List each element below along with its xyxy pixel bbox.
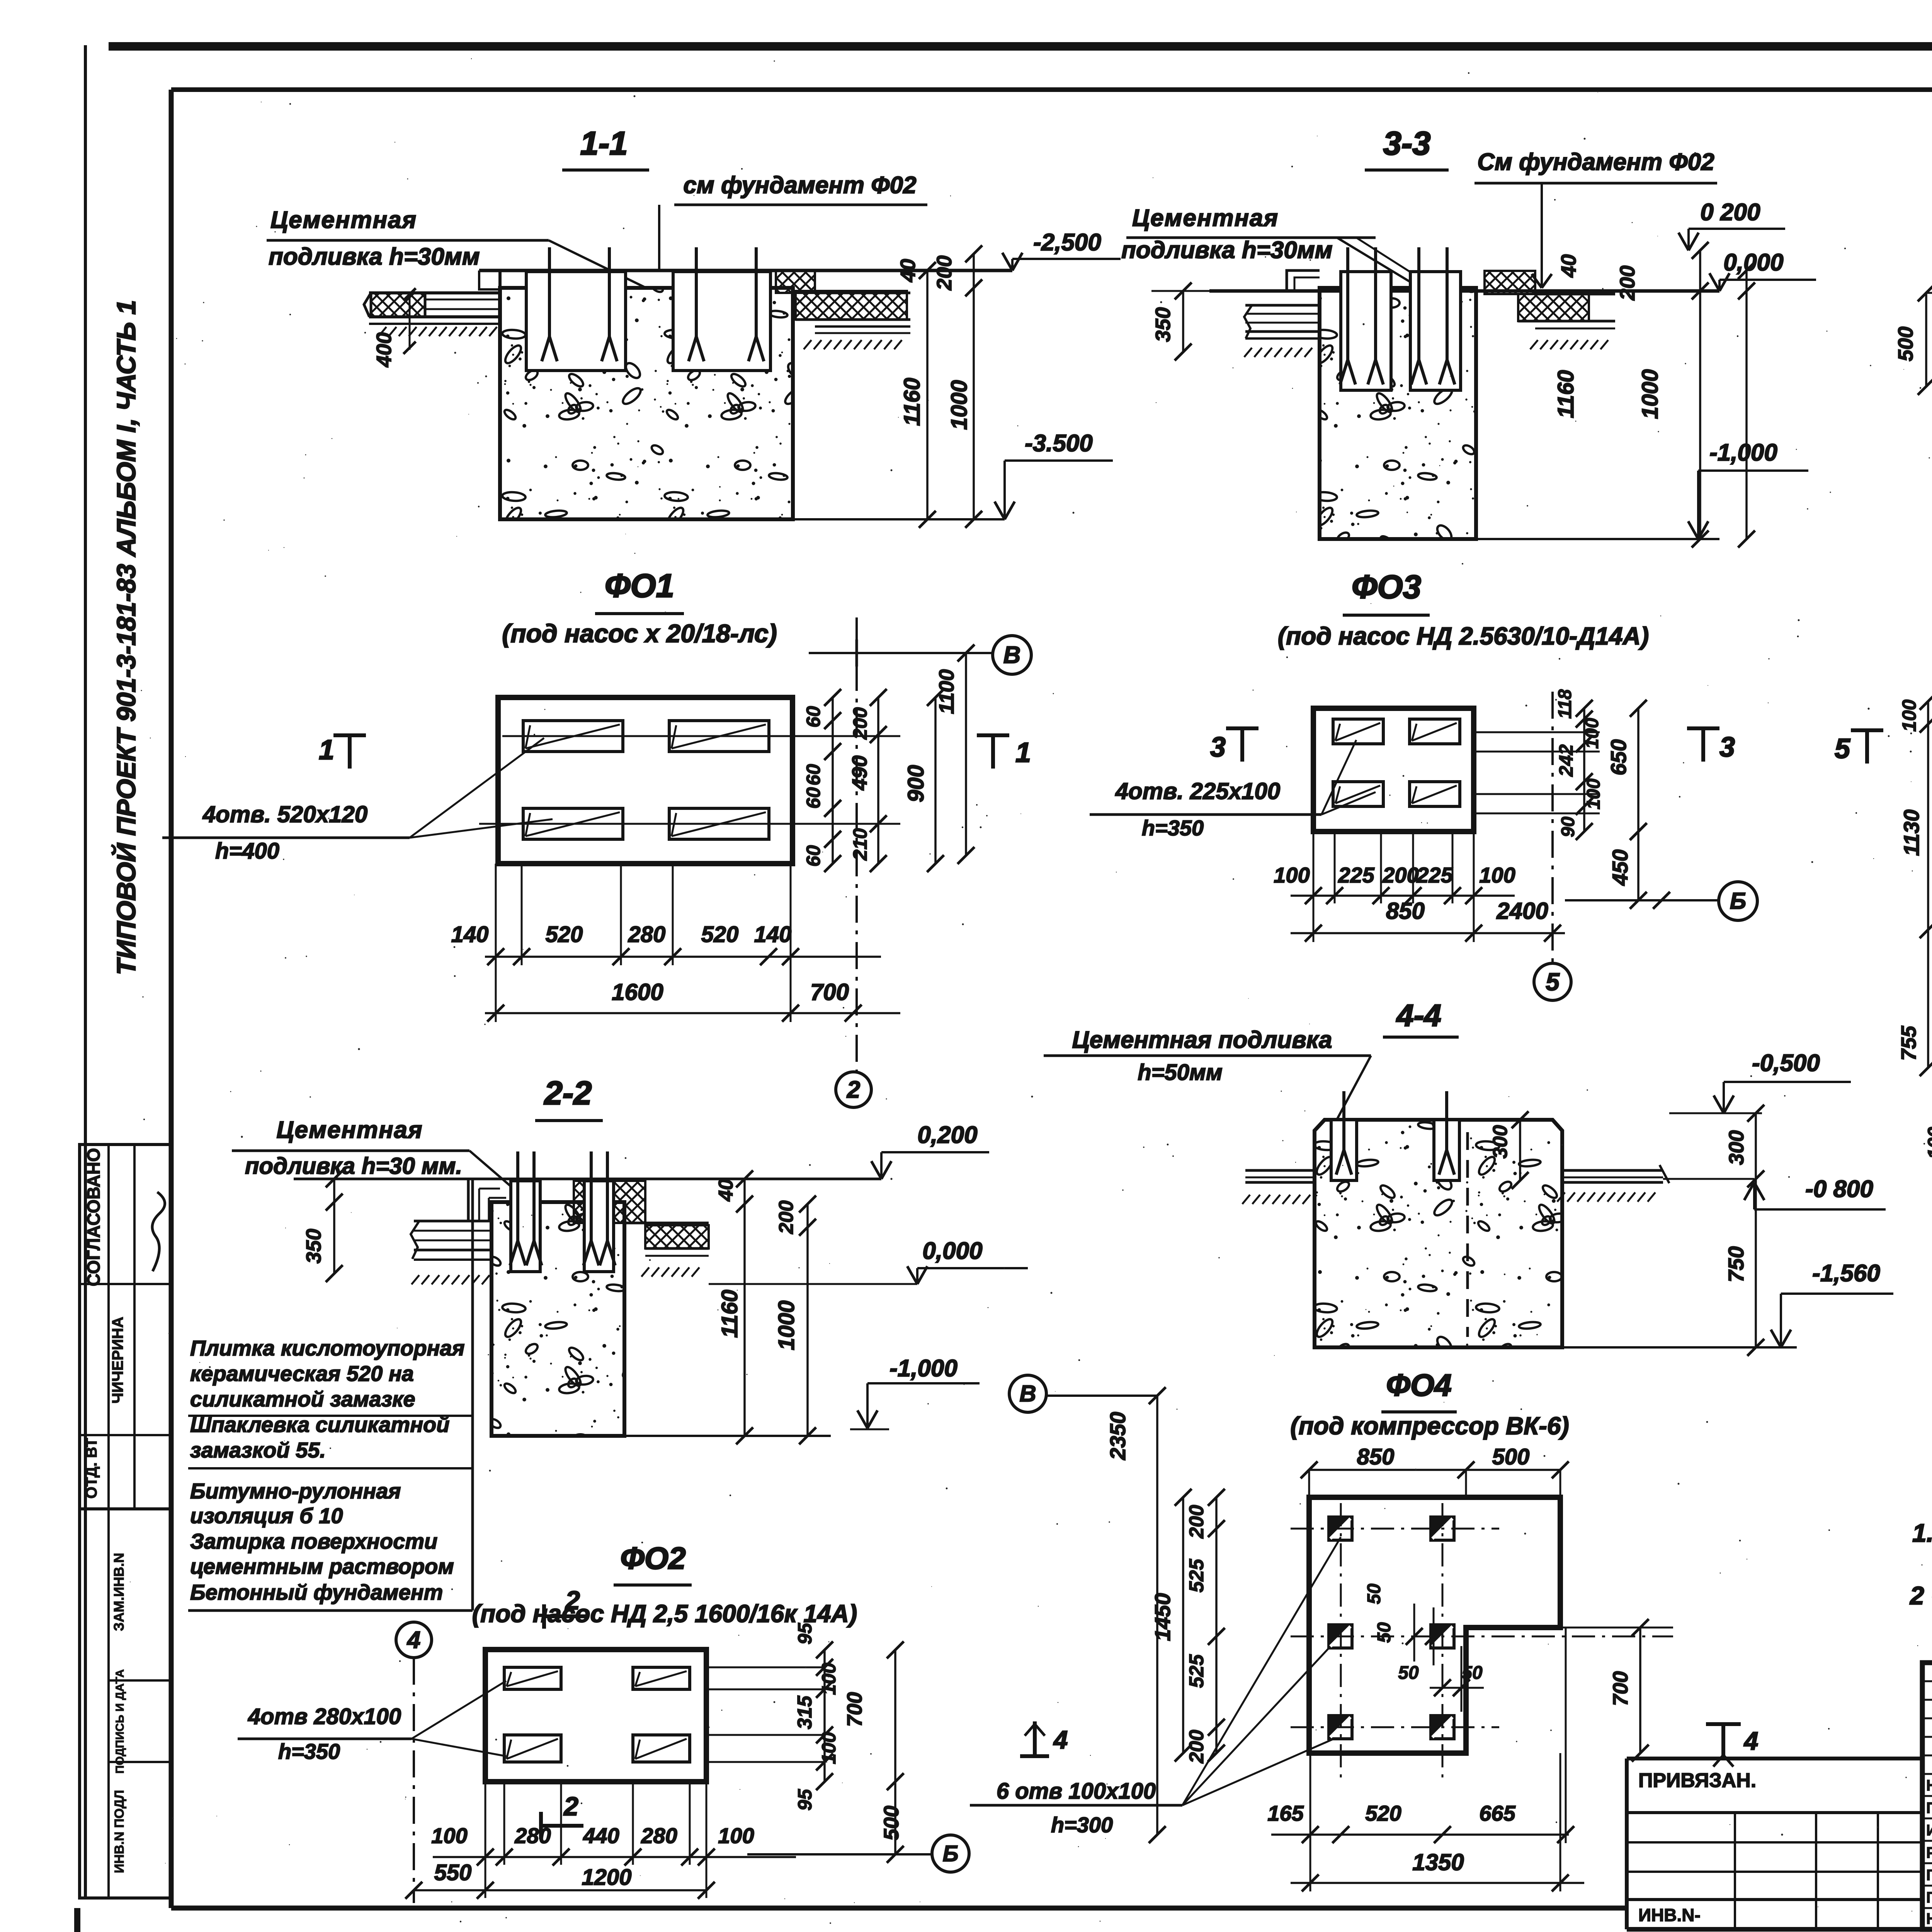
svg-text:490: 490 <box>848 755 871 791</box>
svg-text:118: 118 <box>1555 689 1575 719</box>
svg-text:ФО1: ФО1 <box>605 568 674 604</box>
svg-text:1450: 1450 <box>1150 1593 1175 1641</box>
svg-text:5: 5 <box>1546 968 1560 996</box>
svg-text:520: 520 <box>701 922 739 947</box>
svg-text:50: 50 <box>1398 1663 1419 1683</box>
svg-text:700: 700 <box>1609 1671 1632 1706</box>
svg-text:ФО4: ФО4 <box>1386 1368 1451 1402</box>
svg-text:525: 525 <box>1185 1654 1208 1688</box>
svg-text:850: 850 <box>1386 898 1425 924</box>
svg-text:200: 200 <box>1616 265 1639 301</box>
svg-text:-0 800: -0 800 <box>1805 1176 1873 1202</box>
svg-text:40: 40 <box>1557 254 1580 278</box>
svg-text:Б: Б <box>942 1841 958 1866</box>
svg-text:1200: 1200 <box>582 1865 631 1890</box>
svg-text:50: 50 <box>1364 1583 1384 1604</box>
svg-text:100: 100 <box>718 1823 754 1848</box>
svg-text:h=400: h=400 <box>215 838 279 864</box>
svg-text:200: 200 <box>1382 863 1418 887</box>
svg-text:100: 100 <box>1479 863 1515 887</box>
svg-text:-1,000: -1,000 <box>1709 439 1777 466</box>
svg-text:280: 280 <box>641 1823 677 1848</box>
svg-text:100: 100 <box>1898 699 1920 732</box>
svg-text:Н КОНТР: Н КОНТР <box>1926 1777 1932 1794</box>
svg-text:ИНВ.N ПОДЛ: ИНВ.N ПОДЛ <box>112 1790 127 1873</box>
svg-text:ТИПОВОЙ ПРОЕКТ 901-3-181-83: ТИПОВОЙ ПРОЕКТ 901-3-181-83 АЛЬБОМ I, ЧА… <box>111 300 141 975</box>
svg-text:4отв. 225х100: 4отв. 225х100 <box>1115 778 1281 804</box>
svg-text:200: 200 <box>1185 1730 1208 1764</box>
svg-text:40: 40 <box>896 259 920 282</box>
svg-text:Цементная: Цементная <box>276 1117 423 1143</box>
svg-text:см фундамент Ф02: см фундамент Ф02 <box>683 172 916 199</box>
svg-text:500: 500 <box>880 1806 903 1840</box>
svg-text:225: 225 <box>1338 863 1374 887</box>
svg-text:h=50мм: h=50мм <box>1138 1060 1223 1085</box>
svg-text:520: 520 <box>1365 1801 1401 1825</box>
svg-text:замазкой 55.: замазкой 55. <box>190 1438 326 1462</box>
svg-text:4отв. 520х120: 4отв. 520х120 <box>202 801 368 827</box>
svg-text:140: 140 <box>754 922 792 947</box>
svg-text:90: 90 <box>1558 816 1578 837</box>
svg-text:650: 650 <box>1606 739 1631 775</box>
svg-text:ФО2: ФО2 <box>620 1541 685 1575</box>
svg-text:350: 350 <box>302 1229 325 1264</box>
svg-text:4-4: 4-4 <box>1396 998 1441 1032</box>
svg-text:1350: 1350 <box>1412 1849 1464 1875</box>
svg-text:1000: 1000 <box>1638 369 1663 419</box>
svg-text:изоляция б 10: изоляция б 10 <box>190 1503 343 1528</box>
svg-text:В: В <box>1019 1381 1036 1406</box>
svg-text:0,000: 0,000 <box>1723 249 1783 276</box>
svg-text:подливка h=30 мм.: подливка h=30 мм. <box>245 1153 462 1179</box>
svg-text:ИНВ.N-: ИНВ.N- <box>1638 1905 1701 1925</box>
svg-text:100: 100 <box>431 1823 467 1848</box>
svg-text:2 Отверстия в фундаментах вы: 2 Отверстия в фундаментах выверить после… <box>1909 1581 1932 1610</box>
svg-text:1000: 1000 <box>774 1300 799 1350</box>
svg-text:100: 100 <box>818 1663 840 1695</box>
svg-text:ИНЖЕН.: ИНЖЕН. <box>1926 1822 1932 1839</box>
svg-text:4: 4 <box>406 1627 420 1653</box>
svg-text:6 отв 100х100: 6 отв 100х100 <box>997 1779 1156 1804</box>
svg-text:140: 140 <box>451 922 489 947</box>
svg-text:-3.500: -3.500 <box>1025 430 1093 457</box>
svg-text:подливка h=30мм: подливка h=30мм <box>1121 237 1333 264</box>
svg-text:В: В <box>1003 642 1021 668</box>
svg-text:400: 400 <box>372 332 396 367</box>
svg-text:750: 750 <box>1724 1246 1748 1282</box>
svg-text:40: 40 <box>715 1179 737 1202</box>
svg-text:ЧИЧЕРИНА: ЧИЧЕРИНА <box>109 1317 126 1404</box>
svg-text:280: 280 <box>628 922 666 947</box>
svg-text:1000: 1000 <box>947 380 972 430</box>
svg-text:ПРОВЕР: ПРОВЕР <box>1926 1799 1932 1816</box>
svg-text:h=350: h=350 <box>278 1739 340 1764</box>
svg-text:2-2: 2-2 <box>544 1075 592 1112</box>
svg-text:ФО3: ФО3 <box>1352 569 1421 605</box>
svg-text:95: 95 <box>794 1622 816 1645</box>
svg-text:1160: 1160 <box>1553 370 1578 418</box>
svg-text:цементным раствором: цементным раствором <box>190 1554 454 1578</box>
svg-text:ГЛ.КОНСТ: ГЛ.КОНСТ <box>1926 1889 1932 1906</box>
svg-text:1: 1 <box>1015 737 1031 768</box>
svg-text:210: 210 <box>849 828 871 861</box>
svg-text:100: 100 <box>1582 718 1602 749</box>
svg-text:Б: Б <box>1730 888 1746 914</box>
svg-text:4: 4 <box>1053 1725 1068 1754</box>
svg-text:165: 165 <box>1267 1801 1304 1825</box>
svg-text:Бетонный фундамент: Бетонный фундамент <box>190 1580 443 1604</box>
svg-text:3-3: 3-3 <box>1383 125 1431 162</box>
svg-text:4отв 280х100: 4отв 280х100 <box>248 1704 401 1729</box>
svg-text:100: 100 <box>818 1732 840 1764</box>
svg-text:1600: 1600 <box>612 979 663 1005</box>
svg-text:225: 225 <box>1416 863 1453 887</box>
svg-text:315: 315 <box>794 1696 816 1730</box>
svg-text:2350: 2350 <box>1105 1412 1130 1461</box>
svg-text:300: 300 <box>1489 1125 1512 1159</box>
svg-text:60: 60 <box>803 764 824 786</box>
svg-text:100: 100 <box>1274 863 1310 887</box>
svg-text:700: 700 <box>843 1692 866 1727</box>
svg-text:50: 50 <box>1374 1622 1395 1643</box>
svg-text:4: 4 <box>1743 1726 1759 1755</box>
svg-text:300: 300 <box>1725 1130 1748 1165</box>
svg-text:-0,500: -0,500 <box>1752 1050 1820 1077</box>
svg-text:(под насос х 20/18-лс): (под насос х 20/18-лс) <box>502 619 777 648</box>
svg-text:НАЧ ОТД: НАЧ ОТД <box>1926 1910 1932 1927</box>
svg-text:95: 95 <box>794 1789 816 1811</box>
svg-text:3: 3 <box>1719 732 1735 763</box>
svg-text:2: 2 <box>563 1792 578 1821</box>
svg-text:100: 100 <box>1924 1127 1932 1159</box>
svg-text:подливка h=30мм: подливка h=30мм <box>269 243 480 270</box>
svg-text:Плитка кислотоупорная: Плитка кислотоупорная <box>190 1336 465 1360</box>
svg-text:2: 2 <box>847 1077 860 1103</box>
svg-text:755: 755 <box>1897 1026 1920 1061</box>
svg-text:ГИП: ГИП <box>1926 1867 1932 1884</box>
svg-text:1160: 1160 <box>717 1290 742 1338</box>
svg-text:См фундамент Ф02: См фундамент Ф02 <box>1477 149 1714 175</box>
svg-text:50: 50 <box>1462 1663 1483 1683</box>
svg-text:200: 200 <box>933 255 956 291</box>
svg-text:500: 500 <box>1492 1444 1530 1469</box>
svg-text:1-1: 1-1 <box>580 125 628 162</box>
svg-text:СОГЛАСОВАНО: СОГЛАСОВАНО <box>83 1148 104 1286</box>
svg-text:-1,000: -1,000 <box>889 1355 957 1382</box>
svg-text:60: 60 <box>803 845 824 867</box>
svg-text:h=300: h=300 <box>1051 1813 1113 1837</box>
svg-text:0,200: 0,200 <box>917 1122 977 1148</box>
svg-text:550: 550 <box>434 1860 472 1885</box>
svg-text:242: 242 <box>1555 744 1577 777</box>
svg-text:700: 700 <box>810 979 849 1005</box>
svg-text:1130: 1130 <box>1899 810 1923 856</box>
svg-text:60: 60 <box>803 787 824 809</box>
svg-text:1100: 1100 <box>935 669 958 714</box>
svg-text:(под компрессор ВК-6): (под компрессор ВК-6) <box>1290 1412 1569 1440</box>
svg-text:5: 5 <box>1835 733 1850 764</box>
svg-text:1. Фундаменты показаны в раб: 1. Фундаменты показаны в рабочем положен… <box>1912 1519 1932 1547</box>
svg-text:ПОДПИСЬ И ДАТА: ПОДПИСЬ И ДАТА <box>114 1669 126 1774</box>
svg-text:Цементная: Цементная <box>270 207 417 233</box>
svg-text:500: 500 <box>1894 327 1917 361</box>
svg-text:керамическая 520 на: керамическая 520 на <box>190 1361 414 1386</box>
svg-text:3: 3 <box>1210 732 1226 763</box>
svg-text:силикатной замазке: силикатной замазке <box>190 1387 415 1411</box>
svg-text:Цементная подливка: Цементная подливка <box>1072 1027 1332 1053</box>
svg-text:РУК ГР: РУК ГР <box>1926 1844 1932 1861</box>
svg-text:900: 900 <box>903 765 929 803</box>
svg-text:Битумно-рулонная: Битумно-рулонная <box>190 1479 401 1503</box>
svg-text:ПРИВЯЗАН.: ПРИВЯЗАН. <box>1638 1769 1756 1792</box>
svg-text:-2,500: -2,500 <box>1033 229 1101 256</box>
svg-text:1160: 1160 <box>900 378 925 426</box>
svg-text:350: 350 <box>1151 307 1175 342</box>
svg-text:0 200: 0 200 <box>1700 199 1760 226</box>
svg-text:(под насос НД 2.5630/10-Д14А): (под насос НД 2.5630/10-Д14А) <box>1278 622 1649 650</box>
svg-text:200: 200 <box>775 1201 798 1235</box>
svg-text:100: 100 <box>1583 779 1604 810</box>
svg-text:200: 200 <box>849 707 871 740</box>
svg-text:200: 200 <box>1185 1505 1208 1539</box>
svg-text:ОТД. ВТ: ОТД. ВТ <box>83 1438 100 1498</box>
svg-text:450: 450 <box>1608 849 1632 886</box>
svg-text:0,000: 0,000 <box>922 1238 982 1264</box>
svg-text:520: 520 <box>546 922 583 947</box>
svg-text:1: 1 <box>319 735 334 765</box>
svg-text:Цементная: Цементная <box>1132 205 1279 231</box>
svg-text:-1,560: -1,560 <box>1812 1260 1880 1287</box>
svg-text:Затирка поверхности: Затирка поверхности <box>190 1529 437 1553</box>
svg-text:525: 525 <box>1185 1559 1208 1593</box>
svg-text:440: 440 <box>583 1823 619 1848</box>
svg-text:665: 665 <box>1479 1801 1515 1825</box>
svg-text:850: 850 <box>1357 1444 1395 1469</box>
svg-text:h=350: h=350 <box>1142 816 1204 840</box>
svg-text:60: 60 <box>803 706 824 728</box>
svg-text:2400: 2400 <box>1496 898 1548 924</box>
svg-text:2: 2 <box>565 1586 580 1615</box>
svg-text:ЗАМ.ИНВ.N: ЗАМ.ИНВ.N <box>111 1553 127 1631</box>
